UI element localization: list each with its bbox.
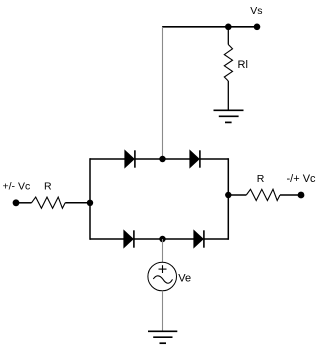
wire Rl bottom to ground (227, 81, 229, 110)
wire bridge bottom node to Ve source (162, 239, 164, 263)
wire R to right terminal (280, 194, 301, 196)
wire bridge bottom edge middle segment (134, 238, 194, 240)
wire R to left junction (65, 202, 90, 204)
ground (under Rl) (214, 110, 244, 122)
wire vertical from top rail down to bridge top node (162, 27, 164, 159)
wire Ve source to bottom ground (162, 291, 164, 331)
label R (left) (44, 181, 52, 193)
node right output terminal (298, 192, 305, 199)
node right junction on bridge (225, 192, 231, 198)
wire bridge right edge (227, 158, 229, 240)
label Ve (178, 273, 191, 285)
node left junction on bridge (87, 200, 93, 206)
wire right junction to R (228, 194, 246, 196)
wire bridge bottom edge left segment (90, 238, 125, 240)
wire junction to Rl top (227, 27, 229, 45)
node bottom mid junction (159, 236, 165, 242)
svg-text:Ve: Ve (178, 273, 191, 285)
diode D4 (bottom-right, pointing right) (194, 230, 204, 247)
label R (right) (257, 173, 265, 185)
svg-text:-/+ Vc: -/+ Vc (287, 173, 317, 185)
wire left terminal to R (16, 202, 32, 204)
label Vs (250, 5, 262, 17)
diode D2 (top-right, pointing right) (190, 150, 200, 167)
svg-text:Vs: Vs (250, 5, 262, 17)
resistor R (right) (246, 189, 280, 200)
node Vs terminal (254, 24, 261, 31)
wire bridge left edge (89, 158, 91, 240)
wire top horizontal to Vs (162, 26, 257, 28)
node top mid junction (159, 156, 165, 162)
svg-text:R: R (257, 173, 265, 185)
diode D1 (top-left, pointing right) (125, 150, 135, 167)
diode D3 (bottom-left, pointing right) (124, 230, 134, 247)
wire bridge top edge middle segment (135, 158, 190, 160)
svg-text:+/- Vc: +/- Vc (3, 181, 31, 193)
wire bridge bottom edge right segment (204, 238, 228, 240)
svg-text:R: R (44, 181, 52, 193)
wire bridge top edge left segment (90, 158, 126, 160)
resistor Rl (224, 45, 232, 82)
node left input terminal (13, 199, 20, 206)
wire bridge top edge right segment (200, 158, 228, 160)
label -/+ Vc (287, 173, 317, 185)
resistor R (left) (32, 197, 66, 208)
ground (bottom) (148, 331, 177, 343)
source Ve (AC source circle) (148, 262, 177, 291)
label Rl (238, 59, 248, 71)
svg-text:Rl: Rl (238, 59, 248, 71)
label +/- Vc (3, 181, 31, 193)
junction at top of Rl (225, 24, 232, 31)
